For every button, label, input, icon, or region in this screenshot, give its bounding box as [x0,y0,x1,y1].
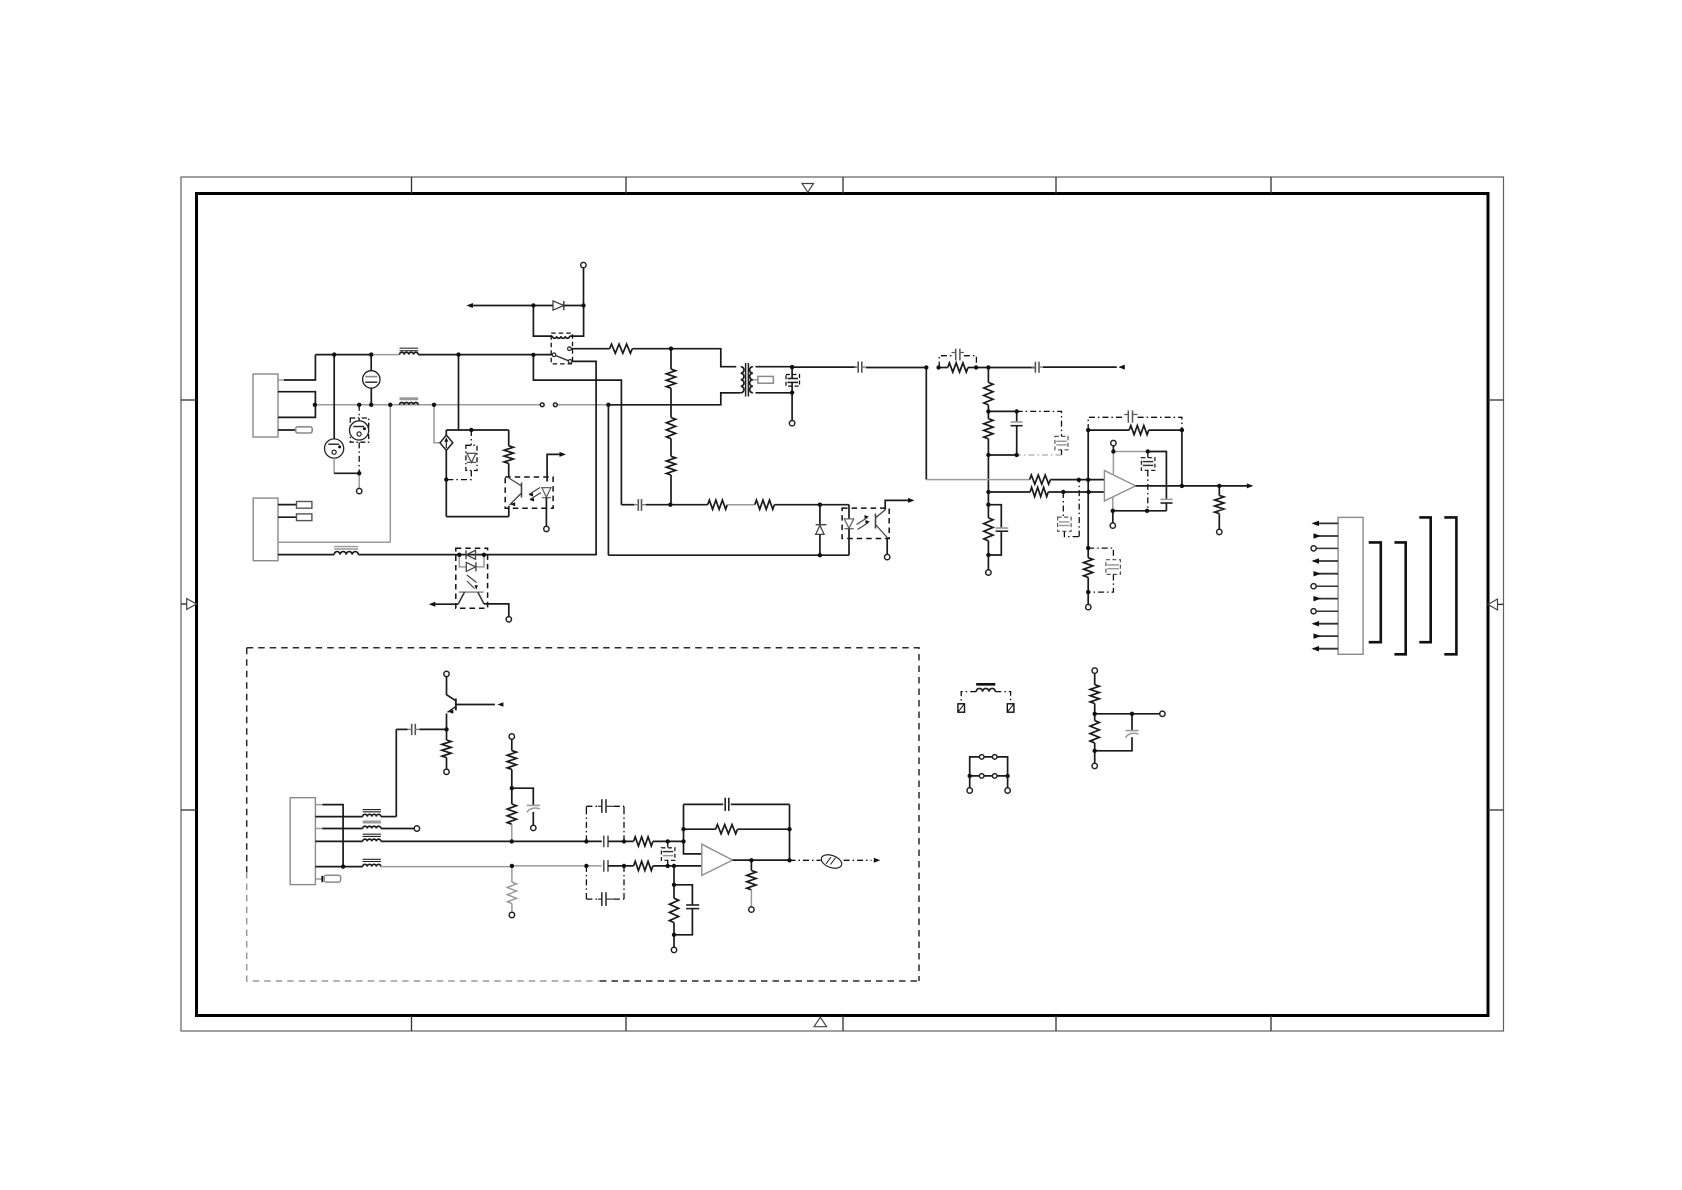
resistor R18 [511,739,513,750]
wire to terminal [1094,751,1096,763]
connector CN4 [1338,517,1363,654]
plug symbol E3 in dash-dot box [350,418,368,442]
dash-dot link AC bus to plug symbol E3 [358,405,360,421]
wire CN1 pin2-pin3 loop [278,392,315,418]
jumper loop top circles [979,755,984,760]
U5 feedback right vertical [789,804,791,860]
zener Z1 in dash-dot box [466,445,477,470]
U5 output dash-dot tail [790,859,821,861]
wire C2 to node E [866,367,926,369]
U4 triac legs [458,592,464,604]
dash-dot cap C11 loop [1088,548,1113,560]
wire bridge bottom leg [445,450,447,516]
wire relay feed with arrow [466,303,473,308]
terminal R23 [749,907,754,912]
wire node to transformer primary top [671,349,736,367]
capacitor C8 supply [1161,498,1173,500]
transformer T1 secondary [750,367,753,393]
wire U4 right to terminal [484,604,509,617]
node output fb [1180,484,1184,488]
U5 tail dash-dot and arrow [844,859,872,861]
dash-dot link plug to node [358,442,360,473]
opto U1 LED [542,488,551,498]
resistor R25 [673,885,675,898]
U4 lower loop [459,555,466,567]
capacitor C5 [1016,411,1018,422]
node E2 on AC bus [369,403,373,407]
transformer T2a coil [363,814,381,816]
opto U3 LED [848,505,850,519]
CN2 live wire [278,554,334,556]
bracket group 1 [1369,542,1381,642]
resistor R4 [670,439,672,457]
opto U1 light arrows [529,488,540,495]
connector CN4 pin leads [1313,522,1338,524]
terminal U3 emitter [885,554,890,559]
capacitor C6 dash-dot box [1055,436,1068,449]
jumper loop corner nodes [968,774,972,778]
node diode cathode junction [581,303,585,307]
resistor R15 [670,504,707,506]
capacitor C10 [1127,410,1129,422]
node minus row fb tap [1086,490,1090,494]
inductor L1 on top bus [400,352,419,354]
wire T1 secondary bottom [756,392,793,394]
arrow U3 output [908,498,915,503]
capacitor C21 [1131,714,1133,731]
capacitor-circle symbol E2 [370,355,372,371]
inductor L3 [334,552,358,555]
node row2 R20 tap [510,864,514,868]
wire T2a to cap riser [381,816,396,818]
terminal gnd RC [1086,604,1091,609]
terminal divider out [1160,711,1165,716]
capacitor C13 series [411,724,413,735]
resistor R10 plus row [1030,475,1051,484]
node sec bottom [790,390,794,394]
wire bridge top row [446,429,508,431]
node fb res left [681,827,685,831]
wire AC bus black segment to transformer [608,393,736,405]
resistor R23 out [750,860,752,870]
node snubber bottom [1015,453,1019,457]
node U5 out R tap [749,858,753,862]
border left edge arrow [181,603,187,605]
capacitor C17 row2 [603,860,605,872]
node U4 left [457,553,461,557]
terminal T2b [414,826,419,831]
optocoupler U3 dashed box [842,508,889,538]
wire U2 V+ stub [1112,446,1114,452]
thermistor TH1 [753,379,758,381]
terminal RC bottom [986,570,991,575]
border inner frame [197,194,1489,1016]
resistor R6 on line [939,367,948,369]
wire relay coil left leg [533,306,552,337]
resistor R19 [507,804,516,824]
CN3 pin2 wire [315,816,362,818]
U4 triac arrows [467,575,477,583]
node U2 V+ rail [1111,449,1115,453]
node sec top cap tap [790,365,794,369]
capacitor C2 series [857,362,859,373]
wire U2 output [1136,485,1251,487]
dash-dot cap box across rows [585,813,587,842]
wire node to terminal [358,473,360,488]
wire to terminal [1087,592,1089,604]
node gnd bottom [672,933,676,937]
CN3 pin3 wire [315,828,322,830]
U5 feedback left vertical [683,804,685,841]
node E3 on AC bus [357,403,361,407]
capacitor C18 ddbox top [601,799,603,813]
dash-dot input cap C16 [667,841,669,847]
wire socket E1 to node [333,458,335,473]
dash-dot link to zener Z1 [470,430,472,445]
resistor R27 [1094,714,1096,721]
node R-column top [669,347,673,351]
node RC top [986,503,990,507]
wire gray drop x390 [389,405,391,542]
node row1 ddbox right [622,839,626,843]
resistor R5 bridge to opto U1 [508,430,510,446]
terminal U4 [506,617,511,622]
border tick marks [411,177,413,194]
wire row1 left [381,840,512,842]
wire U5 output [733,859,790,861]
resistor R12 feedback [1088,429,1129,431]
terminal opto U1 LED cathode [544,526,549,531]
node zener tap on bridge row [469,428,473,432]
U5 feedback cap path [684,803,724,805]
terminal gnd RC2 [671,947,676,952]
capacitor C20 branch [674,885,692,905]
triac opto U4 dashed box [456,548,488,608]
wire U2 V+ into body [1112,452,1114,475]
resistor R13 output load [1218,486,1220,496]
node plus row RC tap [1077,478,1081,482]
node CN1 pin2/3 tap on AC bus [313,403,317,407]
node G column top [986,365,990,369]
node R18 bottom [510,786,514,790]
node divider mid [1093,712,1097,716]
CN2 pin2 stub and lug [278,516,297,518]
node top bus junction A [332,352,336,356]
wire relay NC drop jog [533,355,621,505]
CN2 pin1 stub and lug [278,504,297,506]
node divider bottom [1093,749,1097,753]
resistor R11 minus row [988,491,1030,493]
wire bottom row to LED [820,554,849,556]
transformer T2b coil [363,826,381,828]
terminal Q1 collector [444,671,449,676]
resistor R2 [670,349,672,369]
diode D1 [533,305,553,307]
wire C3 to end arrow [1043,366,1117,368]
wire U2 bottom rail [1113,510,1167,512]
wire drop to socket symbol E1 [333,355,335,439]
dash-dot fb cap C10 path [1088,417,1124,430]
node minus row RC tap [1061,490,1065,494]
relay K1 coil [552,336,569,338]
wire relay coil right leg [570,306,584,337]
relay K1 dashed box [551,333,572,364]
border bottom center triangle marker [814,1017,827,1026]
wire relay NO contact to R1 [571,348,609,350]
node minus-row origin [986,490,990,494]
terminal R17 [444,769,449,774]
wire bottom row [608,554,820,556]
wire U2 V- to terminal [1112,511,1114,523]
wire R1 to node [632,348,671,350]
node gnd RC bottom [1086,590,1090,594]
wire AC-bus drop to bottom row [607,405,609,555]
op-amp U2 triangle [1104,471,1135,502]
dash-dot C6 return [1061,450,1063,455]
bracket group 3 [1419,517,1430,642]
opto U1 phototransistor [521,483,523,498]
wire bridge top stub [445,430,447,435]
node F snubber-box left foot [936,365,940,369]
wire to top terminal [583,268,585,306]
arrow line end marker [1118,365,1125,370]
wire CN1 pin1 to top bus [278,379,284,381]
capacitor C14 branch [512,788,534,805]
resistor R3 [670,388,672,417]
wire U3 collector out [885,500,911,509]
node U4 right [482,553,486,557]
wire RC to terminal [987,555,989,570]
audio section dashed box [247,648,919,981]
transformer T2d coil [363,864,381,866]
node E drop [924,365,928,369]
trimmer capacitor C1 dashed [786,375,800,387]
wire column to RC [987,492,989,505]
resistor R17 below Q1 [446,729,448,740]
node row1 C16 tap [666,839,670,843]
border right edge arrow [1498,603,1504,605]
terminal divider bottom [1092,763,1097,768]
resistor R8 [987,411,989,418]
bracket group 4 [1444,517,1456,654]
wire snubber top row [988,410,1016,412]
CN3 pin1 wire down [315,804,322,806]
node bridge drop on AC bus [432,403,436,407]
node R8 bottom [986,453,990,457]
border outer frame [181,177,1504,1031]
wire column crossing to minus row [987,455,989,492]
resistor R1 [610,344,633,353]
opto U1 LED feed arrow [560,452,567,457]
wire row2 mid [512,865,602,867]
node F2 snubber-box right foot [974,365,978,369]
U4 diode lower [466,562,475,571]
jumper loop bottom circles [979,774,984,779]
wire relay arm drop [572,361,596,555]
connector CN3 [290,798,315,885]
node gnd branch [672,883,676,887]
CN3 pin5 wire row2 [315,866,362,868]
capacitor C12 series [637,499,639,511]
op-amp U5 triangle [702,844,733,875]
wire sec bottom to terminal [791,393,793,421]
resistor R7 [987,368,989,383]
inductor L2 on AC bus [400,402,419,404]
resistor R22 row2 [634,861,653,870]
node cap row R column [668,503,672,507]
node snubber top [1015,409,1019,413]
terminal R20 [509,912,514,917]
node Q1 emitter [444,727,448,731]
relay K1 switch contacts [552,353,556,357]
wire divider out [1095,713,1160,715]
wire fb right vertical [1181,430,1183,486]
dash-dot transformer symbol [976,683,995,686]
node output R tap [1217,484,1221,488]
opto U3 light arrows [857,518,868,525]
node R7-R8 [986,409,990,413]
node divider cap tap [1130,712,1134,716]
U4 diode upper [466,550,475,559]
wire cap riser [395,729,397,816]
wire to terminal [673,935,675,947]
wire T1 primary bottom [721,392,741,394]
resistor R21 row1 [634,837,653,846]
bracket group 2 [1394,542,1405,654]
node top bus junction D [531,353,535,357]
input RC dash-dot cap C7 [1062,492,1064,517]
transformer T1 primary [741,367,744,393]
capacitor C3 series [1034,362,1036,373]
node U5 out fb [787,858,791,862]
node dashdot return on bridge leg [444,477,448,481]
node top bus junction C [456,352,460,356]
wire row2 left gray [381,866,512,868]
resistor R16 [755,500,775,509]
wire cap row to opto U3 [820,504,849,506]
node zener2 tap [818,503,822,507]
arrow U2 output [1247,483,1254,488]
zener Z2 [819,505,821,525]
wire Q1 collector [447,677,456,701]
wire U4 gate left with arrow [431,603,458,605]
U4 triac bar [459,591,484,593]
socket symbol E1 [325,439,344,458]
border top center triangle marker [802,184,814,193]
wire bridge bottom row [446,516,509,518]
wire plus row from node E [925,368,927,480]
node below sockets [357,471,361,475]
node bottom rail cap tap [1145,509,1149,513]
Q1 emitter [448,707,456,713]
node pin1 to row2 [341,864,345,868]
node row1 fb join [681,839,685,843]
fuse F1 on CN1 pin4 [296,427,313,433]
node top bus junction B [369,352,373,356]
wire fb left vertical [1087,430,1089,548]
terminal R18 top [509,734,514,739]
resistor R24 feedback [684,828,716,830]
CN3 pin4 wire row1 [315,840,362,842]
resistor R14 [1084,558,1093,578]
node U2 V- rail [1111,509,1115,513]
capacitor C15 row1 [603,836,605,848]
node gray drop on AC bus [388,403,392,407]
capacitor C19 ddbox bottom [601,892,603,906]
Q1 base wire with arrow [456,704,495,706]
wire plus jog to U5 [684,841,702,854]
wire cap row start [621,504,634,506]
wire gray drop to bridge [434,405,440,443]
node RC bottom [986,553,990,557]
jumper loop box [970,757,1008,776]
resistor R26 [1094,673,1096,684]
wire L3 to triac section [358,554,596,556]
wire top line bus [315,354,371,356]
wire U3 emitter to terminal [886,538,888,555]
dash-dot cap C9 across supply [1147,452,1149,458]
node row2 gnd tap [672,864,676,868]
resistor R20 [511,866,513,882]
node row2 C16 tap [666,864,670,868]
bridge rectifier B1 diamond [440,435,453,450]
connector CN2 [253,498,278,561]
node fb left [1086,428,1090,432]
wire snubber bottom row [988,454,1016,456]
wire CN1 pin4 stub [278,429,296,431]
transistor Q1 bar [455,699,457,711]
dash-dot parallel cap C6 path [1017,411,1062,436]
connector break circles on AC bus [540,403,544,407]
CN2 gray wire to gray drop [278,541,390,543]
jumper loop terminals [969,776,971,788]
wire row1 mid [512,840,602,842]
node fb right [1180,428,1184,432]
dash-dot link zener to bridge leg [449,471,472,480]
terminal sec bottom [789,421,794,426]
wire to node G [976,367,1035,369]
node row1 ddbox left [584,839,588,843]
node rail cap tap [1146,449,1150,453]
node diode anode junction [531,303,535,307]
terminal U2 V- [1110,523,1115,528]
node AC bus junction at x608 [606,403,610,407]
terminal C14 [531,825,536,830]
node fb res right [787,827,791,831]
node row2 ddbox right [622,864,626,868]
emi filter dash-dot box with cap [939,356,951,368]
wire T2b to terminal [381,828,414,830]
node row2 ddbox left [584,864,588,868]
node R19 on row1 [510,839,514,843]
wire U2 supply rail top [1113,451,1147,453]
optocoupler U1 dashed box [505,477,553,508]
ferrite bead symbol [821,855,841,868]
opto U3 phototransistor [875,514,877,529]
terminal below sockets [357,488,362,493]
wire AC bus gray segment [315,404,541,406]
opto U1 emitter wire to bridge row [508,506,510,517]
capacitor C4 parallel loop [988,505,1001,528]
transformer T1 core [745,363,747,397]
terminal divider top [1092,668,1097,673]
node bottom row zener [818,553,822,557]
terminal top center [581,262,586,267]
terminal U2 V+ [1111,440,1116,445]
connector CN1 [253,374,278,437]
transformer T2c coil [363,839,381,841]
wire U2 V- into body [1112,497,1114,511]
